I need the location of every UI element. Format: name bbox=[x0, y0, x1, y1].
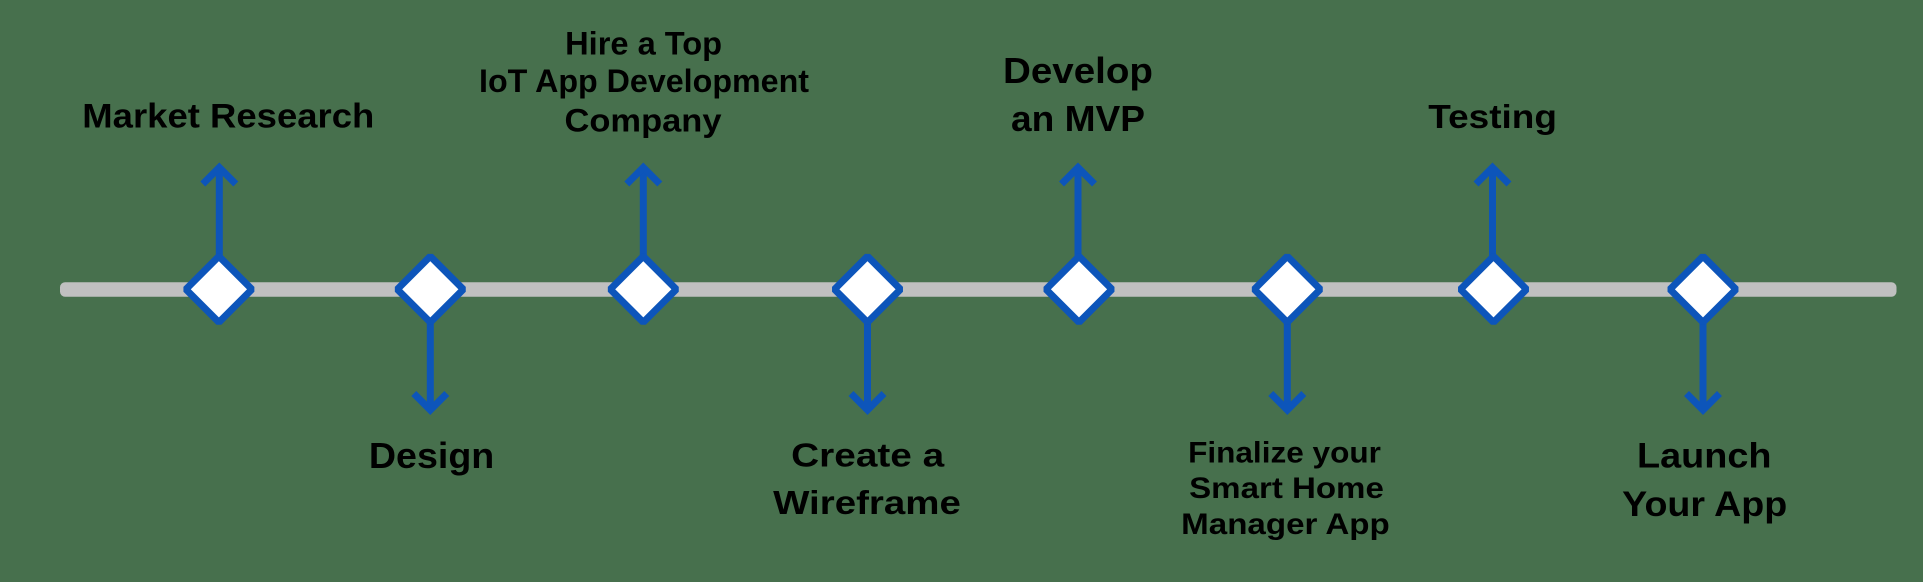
node 7: up arrow bbox=[1476, 168, 1509, 259]
svg-text:Finalize your: Finalize your bbox=[1188, 437, 1381, 470]
diamond 4 bbox=[835, 256, 901, 322]
node 4: down arrow bbox=[851, 320, 884, 410]
diamond 1 bbox=[186, 256, 252, 322]
svg-text:Testing: Testing bbox=[1428, 99, 1557, 136]
diamond 7 bbox=[1461, 256, 1527, 322]
svg-text:Create a: Create a bbox=[791, 437, 945, 474]
svg-text:IoT App Development: IoT App Development bbox=[479, 63, 809, 99]
svg-text:Company: Company bbox=[565, 103, 722, 139]
svg-text:Develop: Develop bbox=[1003, 50, 1153, 91]
diamond 2 bbox=[397, 256, 463, 322]
svg-text:Manager App: Manager App bbox=[1181, 508, 1390, 541]
timeline bar bbox=[60, 282, 1897, 296]
node 8: down arrow bbox=[1687, 320, 1720, 410]
diamond 8 bbox=[1670, 256, 1736, 322]
diamond 3 bbox=[610, 256, 676, 322]
svg-text:Design: Design bbox=[369, 436, 494, 476]
svg-text:an MVP: an MVP bbox=[1011, 98, 1145, 139]
node 6: down arrow bbox=[1271, 320, 1304, 410]
node 2: down arrow bbox=[414, 320, 447, 410]
svg-text:Smart Home: Smart Home bbox=[1189, 472, 1384, 505]
svg-text:Market Research: Market Research bbox=[82, 98, 374, 136]
svg-text:Your App: Your App bbox=[1622, 485, 1787, 524]
svg-text:Wireframe: Wireframe bbox=[773, 484, 961, 521]
node 5: up arrow bbox=[1062, 168, 1095, 259]
svg-text:Launch: Launch bbox=[1637, 437, 1772, 476]
diamond 5 bbox=[1046, 256, 1112, 322]
diamond 6 bbox=[1254, 256, 1320, 322]
node 1: up arrow bbox=[203, 168, 236, 259]
node 3: up arrow bbox=[627, 168, 660, 259]
svg-text:Hire a Top: Hire a Top bbox=[565, 25, 722, 61]
